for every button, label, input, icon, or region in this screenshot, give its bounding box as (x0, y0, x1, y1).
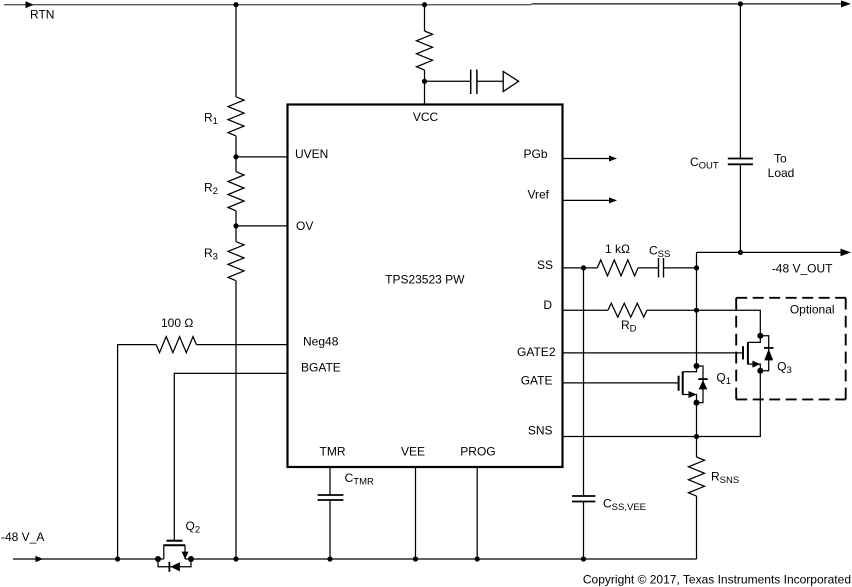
wire UVEN pin (236, 156, 288, 158)
junction dot rail / 100 Ohm (115, 556, 120, 561)
wire COUT top (739, 4, 741, 158)
wire OV pin (236, 225, 288, 227)
resistor RD (608, 303, 647, 317)
svg-text:GATE2: GATE2 (517, 345, 556, 359)
resistor 1 kOhm (597, 260, 638, 276)
wire bottom rail right (185, 558, 696, 560)
svg-text:OV: OV (296, 219, 313, 233)
junction dot SNS / RSNS (694, 434, 699, 439)
resistor R3 (228, 242, 244, 281)
wire bottom rail left -48 V_A (13, 558, 164, 560)
junction dot rail / CTMR (327, 556, 332, 561)
wire PROG stub (476, 467, 478, 559)
resistor 100 Ohm (156, 337, 196, 353)
svg-text:D: D (543, 298, 552, 312)
junction dot rail / VEE (413, 556, 418, 561)
resistor R2 (228, 172, 244, 211)
junction dot OV (233, 223, 238, 228)
wire SS pin (563, 267, 598, 269)
junction dot top rail / VCC resistor (422, 2, 427, 7)
wire RSNS top (696, 437, 698, 458)
capacitor CSS (659, 258, 664, 278)
wire R3 to bottom rail (235, 281, 237, 559)
wire SNS to Q3 source (697, 371, 761, 437)
capacitor CTMR (318, 495, 344, 500)
svg-text:UVEN: UVEN (295, 147, 328, 161)
svg-text:SS: SS (537, 258, 553, 272)
wire 100 Ohm to bottom rail (118, 345, 157, 559)
svg-text:TMR: TMR (320, 445, 346, 459)
svg-text:1 kΩ: 1 kΩ (605, 242, 630, 256)
resistor RSNS (689, 457, 705, 496)
svg-text:Neg48: Neg48 (303, 334, 339, 348)
wire D node to Q3 drain (697, 310, 761, 336)
svg-text:-48 V_OUT: -48 V_OUT (772, 261, 833, 275)
wire CSS,VEE bottom (583, 502, 585, 560)
capacitor VCC bypass (471, 70, 477, 95)
junction dot UVEN (233, 154, 238, 159)
junction dot SS / CSS,VEE (581, 265, 586, 270)
transistor Q3 (743, 333, 774, 374)
svg-text:GATE: GATE (521, 374, 553, 388)
svg-text:BGATE: BGATE (301, 360, 341, 374)
arrowhead Vref (609, 197, 617, 203)
resistor R1 (228, 97, 244, 136)
svg-text:RTN: RTN (30, 8, 54, 22)
capacitor COUT (728, 159, 753, 165)
svg-text:TPS23523 PW: TPS23523 PW (385, 273, 465, 287)
wire VCC node (424, 70, 426, 104)
svg-text:Vref: Vref (527, 188, 549, 202)
wire VCC branch top (424, 5, 426, 31)
IC U1 TPS23523 PW (288, 105, 563, 468)
junction dot COUT / -48 V_OUT (738, 250, 743, 255)
wire Neg48 pin to resistor (196, 344, 287, 346)
junction dot rail / CSS,VEE (581, 556, 586, 561)
svg-text:Optional: Optional (790, 302, 835, 316)
svg-text:VEE: VEE (401, 445, 425, 459)
wire CSS,VEE vertical (583, 268, 585, 496)
junction dot top rail / COUT (738, 1, 743, 6)
junction dot D node (694, 308, 699, 313)
svg-text:SNS: SNS (528, 423, 553, 437)
box Optional dashed (736, 298, 846, 400)
svg-text:-48 V_A: -48 V_A (1, 530, 44, 544)
junction dot rail / R3 (233, 556, 238, 561)
svg-text:Copyright © 2017, Texas Instru: Copyright © 2017, Texas Instruments Inco… (583, 573, 851, 587)
svg-text:100 Ω: 100 Ω (161, 316, 193, 330)
wire R1 to R2 (235, 136, 237, 172)
wire RTN top rail right segment (532, 3, 843, 5)
wire TMR stub (329, 467, 331, 495)
wire 1kOhm to CSS (638, 267, 659, 269)
junction dot top rail / R1 ladder (233, 2, 238, 7)
wire VEE stub (415, 467, 417, 559)
resistor VCC pull-up (417, 31, 433, 70)
wire D pin (563, 309, 609, 311)
wire GATE2 (563, 352, 744, 354)
wire Vref (563, 199, 611, 201)
wire RD to node (647, 309, 697, 311)
buffer triangle off-page (503, 71, 518, 91)
junction dot SS branch / output node (694, 265, 699, 270)
wire SNS pin (563, 436, 697, 438)
junction dot VCC node (422, 79, 427, 84)
wire RSNS bottom (696, 496, 698, 559)
wire COUT bottom (739, 165, 741, 252)
junction dot rail / PROG (475, 556, 480, 561)
svg-text:To: To (774, 151, 787, 165)
svg-text:PROG: PROG (460, 445, 495, 459)
arrowhead -48 V_A (36, 556, 44, 562)
wire VCC node to bypass cap (425, 80, 471, 82)
transistor Q2 (155, 541, 194, 572)
arrowhead on RTN rail (26, 1, 34, 8)
wire PGb (563, 158, 611, 160)
wire -48 V_OUT rail (697, 251, 842, 253)
svg-text:Load: Load (768, 166, 795, 180)
svg-text:VCC: VCC (413, 110, 439, 124)
wire GATE (563, 382, 679, 384)
wire CSS to output node (664, 267, 697, 269)
transistor Q1 (679, 363, 708, 406)
capacitor CSS,VEE (572, 496, 595, 502)
wire RTN top rail left segment (4, 4, 532, 6)
wire R2 to R3 (235, 211, 237, 242)
arrowhead PGb (609, 156, 617, 162)
arrowhead -48 V_OUT (841, 249, 852, 257)
wire BGATE to Q2 gate (174, 373, 287, 540)
wire output node vertical (696, 252, 698, 366)
arrowhead top rail right end (841, 0, 851, 7)
svg-text:PGb: PGb (523, 147, 547, 161)
wire Q1 source to SNS node (696, 403, 698, 437)
wire cap to buffer (477, 80, 503, 82)
wire ladder top to R1 (235, 5, 237, 97)
wire CTMR bottom (329, 500, 331, 559)
